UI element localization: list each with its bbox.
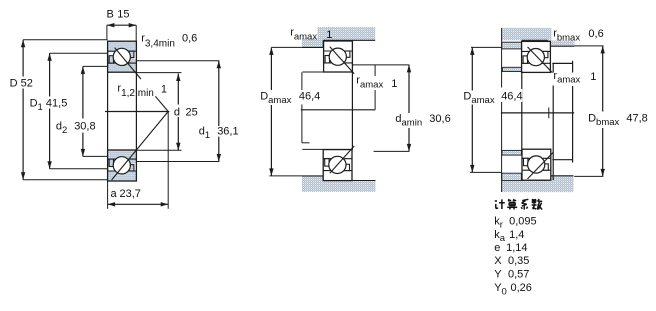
- bearing lower cross-section (middle view): [323, 150, 352, 181]
- bearing left face line (right): [521, 72, 523, 151]
- svg-text:46,4: 46,4: [299, 90, 320, 102]
- svg-text:Y: Y: [494, 268, 502, 280]
- housing abutment top (right view): [502, 28, 575, 46]
- bearing right face line (middle): [351, 72, 353, 150]
- housing abutment top (middle view): [302, 27, 375, 47]
- contact angle line lower (middle): [330, 146, 354, 173]
- bearing right face line: [135, 72, 137, 150]
- svg-text:D: D: [10, 77, 18, 89]
- svg-text:B: B: [107, 9, 114, 21]
- svg-text:a: a: [111, 188, 118, 200]
- svg-text:1: 1: [391, 78, 397, 90]
- svg-text:46,4: 46,4: [501, 90, 522, 102]
- label ra max 1 (right): [552, 73, 583, 86]
- svg-text:1,4: 1,4: [509, 229, 524, 241]
- dimension Da max 46,4 (right): [471, 47, 473, 90]
- contact angle line upper: [115, 48, 141, 79]
- svg-text:52: 52: [21, 77, 33, 89]
- bearing upper cross-section (right view): [522, 41, 551, 72]
- svg-text:d: d: [174, 106, 180, 118]
- svg-text:1: 1: [590, 71, 596, 83]
- outer ring spacer sleeve (right view): [552, 63, 554, 180]
- housing abutment bottom (right view): [502, 176, 574, 192]
- svg-text:1,14: 1,14: [506, 242, 527, 254]
- washer left face line (right): [501, 28, 503, 88]
- shaft washer face line left (middle): [301, 72, 303, 90]
- shaft abutment ring upper (right view): [502, 67, 521, 71]
- dimension B 15 (width): [107, 24, 136, 26]
- bearing upper cross-section (left view): [108, 41, 137, 72]
- label rb max 0,6 (right): [552, 25, 585, 41]
- bearing upper cross-section (middle view): [324, 41, 353, 72]
- dimension d 25 (bore): [177, 74, 179, 105]
- shaft abutment bottom (middle view): [302, 176, 376, 192]
- svg-text:e: e: [494, 242, 500, 254]
- dimension D1 41,5: [49, 53, 51, 96]
- shaft abutment ring lower (right view): [502, 150, 522, 155]
- axis line: [105, 111, 169, 113]
- svg-text:23,7: 23,7: [120, 188, 141, 200]
- da reference lines (middle): [352, 64, 409, 66]
- svg-text:0,57: 0,57: [508, 268, 529, 280]
- housing shoulder ring lower (right view): [502, 173, 522, 180]
- svg-text:47,8: 47,8: [626, 113, 647, 125]
- contact angle line lower (right): [528, 152, 554, 179]
- bearing lower cross-section (right view): [522, 149, 551, 180]
- dimension D 52 (outer diameter): [22, 40, 24, 77]
- axis line (right): [501, 112, 574, 114]
- bearing left face line: [107, 72, 109, 150]
- dimension Da max 46,4 (middle): [270, 47, 272, 90]
- svg-text:30,8: 30,8: [74, 121, 95, 133]
- bearing lower cross-section (left view): [108, 150, 137, 181]
- svg-text:15: 15: [117, 9, 129, 21]
- dimension d2 30,8: [82, 66, 84, 118]
- housing shoulder ring upper (right view): [502, 42, 522, 49]
- svg-text:0,6: 0,6: [182, 32, 197, 44]
- label ra max 1 (top, middle): [287, 25, 318, 39]
- svg-text:0,6: 0,6: [588, 28, 603, 40]
- svg-text:1: 1: [161, 83, 167, 95]
- svg-text:0,095: 0,095: [509, 215, 537, 227]
- axis line (middle): [301, 109, 375, 111]
- svg-text:30,6: 30,6: [429, 113, 450, 125]
- calculation factors title (CJK strokes): [495, 200, 497, 202]
- svg-text:25: 25: [186, 106, 198, 118]
- svg-text:X: X: [494, 255, 502, 267]
- svg-text:0,35: 0,35: [508, 255, 529, 267]
- svg-text:0,26: 0,26: [511, 282, 532, 294]
- svg-text:36,1: 36,1: [217, 126, 238, 138]
- svg-text:1: 1: [326, 29, 332, 41]
- contact angle line upper (middle): [330, 47, 354, 74]
- contact angle line lower: [112, 112, 169, 181]
- dimension d1 36,1: [218, 61, 220, 126]
- contact angle line upper (right): [528, 47, 554, 74]
- dimension a 23,7 (pressure centre): [167, 112, 169, 209]
- dimension Db max 47,8 (right): [602, 46, 604, 112]
- dimension da min 30,6 (middle): [408, 65, 410, 113]
